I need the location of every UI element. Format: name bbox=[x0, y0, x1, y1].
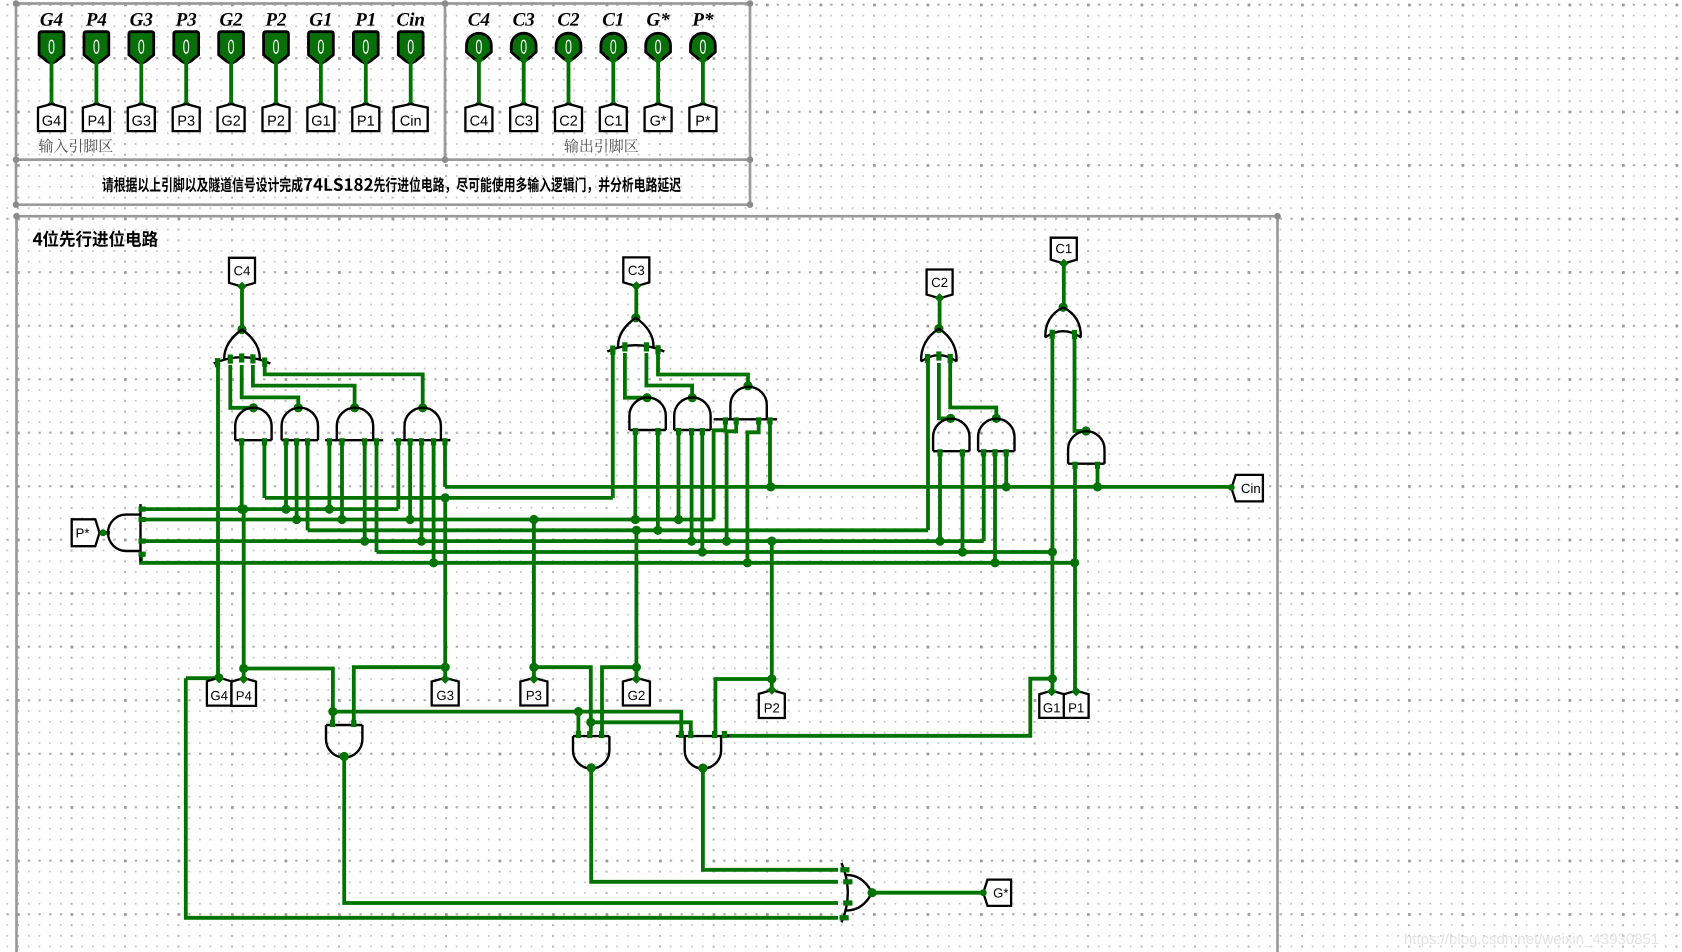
wire C1g.in2 to G1 bus bbox=[961, 452, 965, 552]
tunnel G1 (input pin area) bbox=[307, 104, 334, 131]
junction A4.in2 on P3 bus bbox=[406, 515, 415, 524]
and-gate A4 (P4·P3·P2·P1·Cin) bbox=[394, 408, 450, 446]
wire pin C4 to tunnel bbox=[477, 60, 481, 106]
wire A3.in3 to P2 bus bbox=[363, 442, 367, 541]
junction G4 node bbox=[214, 673, 223, 682]
junction A2.in1 on P4 bus bbox=[281, 505, 290, 514]
junction P3 riser on P3 bus bbox=[529, 515, 538, 524]
output pin C4 bbox=[467, 33, 492, 61]
and-gate P* (P4·P3·P2·P1) bbox=[108, 504, 146, 561]
junction G1 branch node bbox=[1048, 674, 1057, 683]
wire B2.in1 to P3 bus bbox=[677, 431, 681, 520]
input pin Cin label bbox=[397, 12, 424, 25]
node B3 output bbox=[743, 381, 752, 390]
wire A3.in4 to G1 bus bbox=[375, 442, 379, 552]
and-gate D1 (P1·Cin) bbox=[1068, 431, 1104, 469]
tunnel G4 bbox=[207, 678, 232, 706]
P3 bus line bbox=[141, 518, 714, 522]
wire P4 bottom distribution line bbox=[333, 712, 681, 734]
tunnel P3 bbox=[520, 678, 547, 706]
wire G4 riser (U1.in1 to G4 tunnel) bbox=[216, 365, 220, 678]
input pin P1 label bbox=[355, 13, 374, 26]
wire G4 branch to bottom bbox=[186, 676, 219, 680]
input pin G1 bbox=[309, 32, 334, 64]
wire pin P1 to tunnel bbox=[364, 60, 368, 106]
wire D1.in2 to Cin bus bbox=[1096, 465, 1100, 487]
wire P4 branch to bottom AND row bbox=[244, 669, 333, 712]
wire E1 output to G* OR in3 bbox=[344, 757, 838, 904]
wire C2g.in3 to Cin bus bbox=[1004, 452, 1008, 487]
junction B2.in1 on P3 bus bbox=[674, 515, 683, 524]
tunnel G4 (input pin area) bbox=[38, 104, 65, 131]
node A1 output bbox=[249, 403, 258, 412]
wire G4 to G* OR in4 bbox=[186, 678, 838, 918]
node B2 output bbox=[688, 393, 697, 402]
main circuit title 4位先行进位电路 bbox=[33, 230, 158, 247]
wire P3 riser bbox=[532, 520, 536, 678]
tunnel P1 bbox=[1064, 691, 1089, 718]
G1 bus line bbox=[377, 550, 1053, 554]
node P* output bbox=[100, 529, 107, 536]
output pin C1 label bbox=[603, 13, 623, 26]
wire P1 riser (D1.in1 to P1 tunnel) bbox=[1073, 465, 1077, 691]
wire P3 branch to bottom AND E3 bbox=[591, 722, 691, 734]
tunnel P4 (input pin area) bbox=[83, 104, 110, 131]
junction A3.in3 on P2 bus bbox=[360, 537, 369, 546]
wire A2.in1 to P4 bus bbox=[284, 442, 288, 509]
wire U2.in1 riser to G3 bus bbox=[611, 353, 615, 498]
tunnel P4 bbox=[232, 678, 257, 706]
wire P* gate output to tunnel bbox=[100, 531, 111, 535]
main circuit frame bbox=[17, 216, 1278, 952]
wire G2 branch to bottom AND E2 bbox=[602, 667, 636, 734]
junction C1g.in1 on P2 bus bbox=[935, 537, 944, 546]
tunnel Cin (input pin area) bbox=[394, 104, 428, 131]
node E1 output bbox=[340, 752, 349, 761]
tunnel P* box bbox=[72, 519, 100, 546]
P1 bus line bbox=[141, 555, 1075, 563]
output pin C2 bbox=[556, 33, 581, 61]
wire A3.in2 to P3 bus bbox=[340, 442, 344, 520]
frame joints bbox=[13, 0, 1281, 219]
tunnel C4 (output pin area) bbox=[465, 104, 492, 131]
and-gate E1 (P4·G3) bbox=[326, 720, 362, 758]
junction P2 riser on P2 bus bbox=[767, 537, 776, 546]
wire B3.in3 jog to P1 bus bbox=[747, 420, 758, 563]
wire pin C1 to tunnel bbox=[611, 60, 615, 106]
wire G3 branch to bottom AND E1 bbox=[354, 667, 445, 723]
junction B2.in2 on P2 bus bbox=[687, 537, 696, 546]
node C4 OR output bbox=[237, 325, 246, 334]
wire E2 output to G* OR in2 bbox=[591, 768, 838, 882]
and-gate B3 (P3·P2·P1·Cin) bbox=[714, 387, 778, 425]
junction G3 riser on G3 bus bbox=[441, 493, 450, 502]
wire E3 output to G* OR in1 bbox=[703, 768, 838, 870]
wire pin P4 to tunnel bbox=[95, 60, 99, 106]
and-gate A1 (P4·G3) bbox=[235, 408, 271, 446]
wire U2.in3 from AND B2 output bbox=[646, 353, 692, 396]
wire E1.in1 stub bbox=[331, 712, 335, 723]
wire A1.in1 to P4 bus bbox=[240, 442, 244, 509]
tunnel G* box bbox=[983, 880, 1011, 906]
or-gate U3 (C2 = 3-input OR) bbox=[921, 329, 957, 364]
wire G* OR output to tunnel bbox=[872, 891, 983, 895]
wire pin G3 to tunnel bbox=[139, 60, 143, 106]
input pin P3 bbox=[174, 32, 199, 64]
junction G3 branch node bbox=[441, 663, 450, 672]
wire P2 branch to bottom AND E3 bbox=[715, 679, 771, 734]
input pin G3 label bbox=[130, 13, 152, 26]
junction A2.in2 on P3 bus bbox=[292, 515, 301, 524]
tunnel G3 bbox=[432, 678, 459, 706]
wire U2.in2 from AND B1 output bbox=[625, 353, 647, 398]
junction A4.in4 on P1 bus bbox=[429, 558, 438, 567]
or-gate U4 (C1 = 2-input OR) bbox=[1045, 307, 1081, 339]
wire B2.in2 to P2 bus bbox=[690, 431, 694, 541]
watermark text bbox=[1405, 933, 1658, 947]
wire B1.in2 to G2 bus bbox=[656, 431, 660, 530]
wire G1 branch to bottom AND E3.in4 bbox=[727, 679, 1052, 736]
wire A4.in5 to Cin bus bbox=[443, 442, 447, 487]
wire C3 tunnel to OR output bbox=[634, 285, 638, 318]
output pin C1 bbox=[601, 33, 626, 61]
label output area 输出引脚区 bbox=[564, 138, 638, 152]
tunnel C3 (output pin area) bbox=[510, 104, 537, 131]
wire B2.in3 to G1 bus bbox=[700, 431, 704, 552]
input pin area frame bbox=[16, 4, 750, 161]
junction G2 branch node bbox=[632, 663, 641, 672]
and-gate B2 (P3·P2·G1) bbox=[674, 398, 710, 436]
tunnel C4 box bbox=[229, 258, 255, 287]
input pin G2 bbox=[219, 32, 244, 64]
input pin P2 label bbox=[265, 13, 286, 26]
node B1 output bbox=[642, 393, 651, 402]
wire B3.in2 jog to P2 bus bbox=[727, 420, 737, 541]
wire C1g.in1 to P2 bus bbox=[938, 452, 942, 541]
wire pin G* to tunnel bbox=[656, 60, 660, 106]
junction A3.in1 on P4 bus bbox=[325, 505, 334, 514]
tunnel C1 box bbox=[1051, 238, 1077, 264]
tunnel C2 (output pin area) bbox=[555, 104, 582, 131]
junction E2.in1 on P4 bottom line bbox=[574, 707, 583, 716]
output pin P* label bbox=[692, 13, 713, 26]
wire A2.in3 to G2 bus bbox=[306, 442, 310, 530]
junction P4 branch node bbox=[239, 664, 248, 673]
junction A4.in3 on P2 bus bbox=[417, 537, 426, 546]
wire A1.in2 to G3 bus bbox=[262, 442, 266, 498]
or-gate U5 (G* = 4-input OR) bbox=[840, 863, 873, 922]
junction P1 riser on P1 bus bbox=[1070, 558, 1079, 567]
wire pin G2 to tunnel bbox=[229, 60, 233, 106]
junction B3.in2 on P2 bus bbox=[722, 537, 731, 546]
label input area 输入引脚区 bbox=[39, 138, 113, 152]
tunnel G2 (input pin area) bbox=[218, 104, 245, 131]
junction B3.in3 on P1 bus bbox=[743, 558, 752, 567]
wire G1 riser (U4.in1 to G1 tunnel) bbox=[1051, 339, 1055, 691]
input pin G3 bbox=[129, 32, 154, 64]
and-gate C1g (P2·G1) bbox=[933, 419, 969, 457]
wire U1.in5 from AND A4 output bbox=[265, 365, 423, 406]
wire U1.in3 from AND A2 output bbox=[242, 365, 299, 406]
task statement text bbox=[102, 177, 680, 193]
tunnel G* (output pin area) bbox=[645, 104, 672, 131]
node A2 output bbox=[294, 403, 303, 412]
wire C1 tunnel to OR output bbox=[1062, 262, 1066, 307]
wire P3 branch down bbox=[534, 667, 591, 734]
node A3 output bbox=[350, 403, 359, 412]
or-gate U1 (C4 = 5-input OR) bbox=[214, 330, 271, 368]
wire U1.in2 from AND A1 output bbox=[230, 365, 253, 408]
and-gate A3 (P4·P3·P2·G1) bbox=[325, 408, 383, 446]
wire pin C2 to tunnel bbox=[567, 60, 571, 106]
junction C2g.in2 on P1 bus bbox=[990, 558, 999, 567]
wire B1.in1 to P3 bus bbox=[633, 431, 637, 520]
wire G3 riser bbox=[443, 498, 447, 678]
task text box frame bbox=[16, 160, 750, 205]
node G* tunnel port bbox=[980, 889, 987, 896]
and-gate B1 (P3·G2) bbox=[629, 398, 665, 436]
wire pin C3 to tunnel bbox=[522, 60, 526, 106]
node C2-AND1 output bbox=[946, 414, 955, 423]
wire A4.in2 to P3 bus bbox=[408, 442, 412, 520]
output pin P* bbox=[691, 33, 716, 61]
or-gate U2 (C3 = 4-input OR) bbox=[607, 318, 664, 355]
output pin G* bbox=[646, 33, 671, 61]
wire U3.in1 riser to G2 bus end bbox=[926, 363, 930, 530]
junction G2 riser on G2 bus bbox=[632, 526, 641, 535]
tunnel C2 box bbox=[927, 270, 953, 299]
junction P4 riser on P4 bus bbox=[239, 505, 248, 514]
input pin G1 label bbox=[310, 13, 331, 26]
node C2 OR output bbox=[934, 324, 943, 333]
junction P3 branch to E3 bbox=[586, 718, 595, 727]
wire pin P2 to tunnel bbox=[274, 60, 278, 106]
wire C2g.in2 to P1 bus bbox=[993, 452, 997, 563]
node Cin bbox=[1228, 484, 1235, 491]
node C1 OR output bbox=[1059, 303, 1068, 312]
wire C4 tunnel to OR output bbox=[240, 285, 244, 330]
input pin G2 label bbox=[220, 13, 242, 26]
wire E2.in1 stub bbox=[577, 712, 581, 734]
and-gate E2 (P4·P3·G2) bbox=[573, 731, 609, 769]
wire U2.in4 from AND B3 output bbox=[658, 353, 748, 385]
Cin bus line bbox=[445, 485, 1231, 489]
junction C1g.in2 on G1 bus bbox=[958, 547, 967, 556]
input pin Cin bbox=[398, 32, 423, 64]
junction B1.in2 on G2 bus bbox=[653, 526, 662, 535]
wire G2 riser bbox=[635, 530, 639, 678]
wire A4.in3 to P2 bus bbox=[420, 442, 424, 541]
junction B1.in1 on P3 bus bbox=[631, 515, 640, 524]
wire U3.in2 from AND C1g output bbox=[939, 363, 951, 418]
output pin C3 bbox=[511, 33, 536, 61]
wire U3.in3 from AND C2g output bbox=[950, 363, 996, 417]
node A4 output bbox=[418, 403, 427, 412]
node G* OR output bbox=[868, 888, 877, 897]
input pin P4 bbox=[84, 32, 109, 64]
wire A3.in1 to P4 bus bbox=[327, 442, 331, 509]
tunnel P3 (input pin area) bbox=[173, 104, 200, 131]
junction C2g.in3 on Cin bus bbox=[1002, 482, 1011, 491]
node C2-AND2 output bbox=[992, 414, 1001, 423]
P4 bus line bbox=[141, 507, 398, 511]
tunnel G2 bbox=[623, 678, 650, 706]
node E2 output bbox=[587, 763, 596, 772]
wire A2.in2 to P3 bus bbox=[295, 442, 299, 520]
tunnel G3 (input pin area) bbox=[128, 104, 155, 131]
node E3 output bbox=[698, 764, 707, 773]
junction D1.in2 on Cin bus bbox=[1093, 482, 1102, 491]
wire pin P* to tunnel bbox=[701, 60, 705, 106]
junction P3 branch node bbox=[529, 663, 538, 672]
tunnel P2 (input pin area) bbox=[263, 104, 290, 131]
wire P4 riser bbox=[242, 509, 246, 678]
output pin C3 label bbox=[513, 13, 534, 26]
node C1-AND output bbox=[1081, 426, 1090, 435]
and-gate E3 (P4·P3·P2·G1) bbox=[676, 731, 730, 769]
input pin P3 label bbox=[176, 13, 197, 26]
input pin P4 label bbox=[86, 13, 107, 26]
tunnel G1 bbox=[1039, 691, 1064, 718]
tunnel P* (output pin area) bbox=[689, 104, 716, 131]
input pin G4 label bbox=[41, 13, 63, 26]
junction A1.in1 on P4 bus bbox=[237, 505, 246, 514]
junction A3.in2 on P3 bus bbox=[337, 515, 346, 524]
wire P2 riser bbox=[770, 541, 774, 690]
G3 bus line bbox=[265, 496, 613, 500]
tunnel Cin box bbox=[1232, 475, 1263, 502]
wire C2 tunnel to OR output bbox=[938, 297, 942, 329]
junction P4 bottom distribution bbox=[328, 707, 337, 716]
output pin C4 label bbox=[468, 13, 489, 26]
tunnel P1 (input pin area) bbox=[352, 104, 379, 131]
junction B2.in3 on G1 bus bbox=[698, 547, 707, 556]
wire U4.in2 from AND D1 output bbox=[1075, 339, 1087, 431]
tunnel C1 (output pin area) bbox=[600, 104, 627, 131]
wire B3.in4 to Cin bus bbox=[768, 420, 772, 487]
node C3 OR output bbox=[631, 313, 640, 322]
P2 bus line bbox=[141, 539, 984, 543]
junction G1 riser on G1 bus bbox=[1048, 547, 1057, 556]
and-gate C2g (P2·P1·Cin) bbox=[978, 419, 1014, 457]
wire pin G1 to tunnel bbox=[319, 60, 323, 106]
junction B3.in4 on Cin bus bbox=[766, 482, 775, 491]
wire pin G4 to tunnel bbox=[50, 60, 54, 106]
tunnel P2 bbox=[759, 690, 785, 718]
wire B3.in1 jog to P3 bus end bbox=[714, 420, 726, 520]
output pin C2 label bbox=[558, 13, 579, 26]
wire C2g.in1 to P2 bus end bbox=[982, 452, 986, 541]
input pin G4 bbox=[39, 32, 64, 64]
and-gate A2 (P4·P3·G2) bbox=[282, 408, 318, 446]
input pin P2 bbox=[264, 32, 289, 64]
wire A4.in1 to P4 bus bbox=[396, 442, 400, 509]
wire U1.in4 from AND A3 output bbox=[253, 365, 355, 406]
G2 bus line bbox=[308, 528, 928, 532]
tunnel C3 box bbox=[623, 257, 649, 286]
input pin P1 bbox=[353, 32, 378, 64]
junction P2 branch node bbox=[767, 674, 776, 683]
wire pin P3 to tunnel bbox=[184, 60, 188, 106]
tunnel port dots bbox=[214, 259, 1081, 697]
wire pin Cin to tunnel bbox=[409, 60, 413, 106]
wire A4.in4 to P1 bus bbox=[432, 442, 436, 563]
output pin G* label bbox=[647, 13, 670, 26]
